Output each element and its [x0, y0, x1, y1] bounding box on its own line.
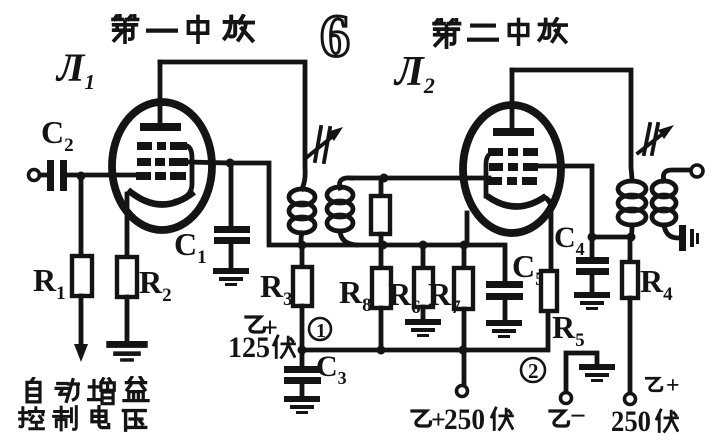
IFT2 secondary coil — [652, 170, 691, 238]
wire V1 cathode to R2 — [125, 194, 130, 257]
IFT1 primary coil — [289, 189, 315, 246]
node IFT2 primary bottom / R4 — [627, 233, 636, 242]
resistor R1 — [72, 256, 92, 296]
input terminal — [29, 170, 40, 181]
tube V2 cathode — [487, 196, 546, 207]
node secondary bottom — [379, 241, 388, 250]
node R8 bottom — [377, 346, 386, 355]
resistor R4 — [622, 237, 638, 394]
ground below C4 — [574, 292, 610, 310]
wire C2 to grid — [67, 173, 136, 178]
capacitor C1 — [214, 226, 250, 244]
resistor R7 — [454, 245, 473, 385]
resistor R3 — [293, 267, 312, 306]
label 乙- — [550, 401, 586, 432]
terminal B+250 center — [457, 386, 468, 397]
svg-text:−: − — [570, 401, 586, 432]
wire node to R1 — [79, 176, 84, 256]
wire C-minus to ground — [566, 353, 597, 392]
wire to R3 — [300, 245, 305, 267]
node R7 on bottom bus — [459, 346, 468, 355]
node at C2 output — [77, 172, 86, 181]
resistor R5 — [541, 271, 557, 311]
tube V1 G3-cathode tie — [176, 146, 192, 201]
tube V1 grid G2 dashes — [137, 158, 188, 166]
wire screen bus to IFT1 bottom — [230, 163, 505, 281]
tube V2 envelope — [463, 105, 561, 233]
ground below R2 — [106, 341, 147, 362]
wire V2 screen out — [538, 166, 592, 237]
ground below C1 — [213, 268, 249, 286]
svg-text:250: 250 — [611, 405, 651, 438]
wire V1 screen G2 out — [189, 162, 230, 163]
tube V1 envelope — [112, 102, 212, 230]
capacitor C3 — [284, 366, 321, 384]
ground below R6 — [405, 319, 441, 337]
svg-text:+: + — [666, 373, 680, 399]
tube V2 grid G1 dashes — [488, 177, 537, 185]
label 乙+ — [246, 313, 278, 344]
AGC arrow — [74, 344, 88, 362]
tuning arrow IFT2 — [638, 124, 674, 154]
wire C3 to ground — [300, 384, 305, 396]
AGC text line2 控制电压 — [20, 407, 146, 431]
node IFT1 primary bottom / R3 — [298, 241, 307, 250]
title second IF stage 第二中放 — [434, 19, 566, 47]
tube V2 plate — [493, 70, 534, 136]
resistor R2 — [117, 257, 137, 297]
tuning arrow IFT1 — [306, 127, 343, 162]
terminal B+250 right — [625, 394, 636, 405]
output terminal — [691, 165, 703, 177]
node screen/C4 — [588, 233, 597, 242]
wire V2 cathode to R5 — [546, 198, 551, 271]
ground below C5 — [486, 320, 522, 338]
terminal C-minus — [561, 393, 572, 404]
tube V1 grid G3 dashes — [137, 142, 187, 150]
resistor R8 — [372, 245, 391, 350]
ground rotated at output — [679, 225, 699, 251]
wire node to C1 — [229, 163, 234, 226]
tube V1 cathode — [128, 190, 194, 205]
label 125伏 — [228, 331, 294, 364]
capacitor C2 — [47, 160, 67, 191]
wire input to C2 — [40, 173, 47, 178]
tube V2 grid G2 dashes — [489, 163, 538, 171]
capacitor C4 — [576, 237, 609, 292]
tube V2 G3-cathode tie — [486, 152, 493, 196]
capacitor C5 — [486, 281, 523, 320]
svg-text:250: 250 — [444, 403, 485, 436]
wire R1 to AGC arrow — [79, 296, 84, 346]
wire R3 to node — [300, 306, 305, 350]
wire C1 to ground — [229, 244, 234, 268]
resistor R6 — [414, 245, 433, 319]
svg-text:2: 2 — [528, 359, 539, 383]
wire V2 cathode to bus — [465, 213, 470, 245]
label 250伏 right — [611, 405, 677, 438]
title first IF stage 第一中放 — [113, 16, 253, 42]
node secondary top / damping resistor — [380, 174, 389, 183]
IFT2 primary coil — [618, 181, 646, 237]
terminal mark circled 1 — [309, 318, 331, 342]
node R6 top — [419, 241, 428, 250]
wire node to C3 — [300, 350, 305, 366]
wire R2 to ground — [125, 297, 130, 341]
bottom bus — [302, 311, 548, 350]
IFT1 secondary coil — [327, 178, 357, 245]
svg-text:125: 125 — [228, 331, 270, 364]
svg-text:1: 1 — [316, 320, 326, 342]
ground below C3 — [284, 396, 320, 414]
tube V1 plate — [140, 62, 181, 131]
node B+125 — [298, 346, 307, 355]
tube V1 grid G1 dashes — [136, 172, 186, 180]
wire V2 plate to IFT2 — [512, 70, 632, 181]
node screen/C1 — [226, 159, 235, 168]
AGC text line1 自动增益 — [27, 377, 148, 403]
wire screen node to R4 node — [592, 235, 631, 240]
ground at C-minus — [579, 364, 615, 382]
label 乙+250伏 — [412, 403, 512, 436]
tube V2 grid G3 dashes — [488, 148, 538, 156]
svg-text:6: 6 — [320, 3, 350, 69]
terminal mark circled 2 — [521, 358, 545, 383]
damping resistor (unlabeled) — [371, 178, 390, 245]
wire V1 plate to IFT1 — [160, 62, 305, 189]
label 乙+ right — [646, 373, 679, 399]
node R7 top / V2 cathode — [460, 241, 469, 250]
grid wire IFT1 secondary to V2 — [351, 176, 489, 181]
